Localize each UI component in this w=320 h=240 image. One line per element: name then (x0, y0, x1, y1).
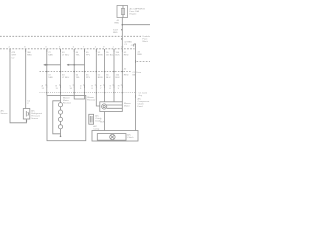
tick row y85 (45, 85, 135, 98)
dashed connector row C (40, 71, 132, 73)
svg-text:Clutch: Clutch (127, 136, 134, 139)
resistor chain circle 4 (58, 125, 62, 129)
motor brush lines (107, 105, 123, 108)
resistor chain circle 1 (58, 103, 62, 107)
dot stub B (73, 64, 75, 66)
sensor bottom dot (26, 120, 27, 121)
clutch coil circle (110, 134, 115, 139)
svg-text:BRN: BRN (98, 77, 103, 79)
compressor inner rect (97, 134, 126, 141)
wire fused feed below boundary (121, 49, 123, 102)
svg-text:Comp: Comp (93, 129, 100, 131)
junction dots row C (26, 24, 123, 137)
chain bottom dot (60, 136, 62, 138)
wire 2 left sensor signal (25, 49, 27, 109)
svg-text:Resistor: Resistor (87, 99, 95, 102)
wire fuse output vertical (121, 18, 123, 49)
dot stub A (46, 64, 48, 66)
svg-text:LT BLU: LT BLU (62, 77, 70, 79)
connector dots wire 122 (121, 29, 122, 30)
svg-text:TAN: TAN (48, 76, 53, 79)
wire 4 (60, 49, 62, 96)
wire branch to right edge (122, 24, 150, 26)
svg-text:GRY: GRY (12, 55, 17, 57)
arrow stub A (44, 64, 61, 66)
wire 5 (73, 49, 75, 96)
svg-text:Sensor: Sensor (31, 117, 38, 120)
svg-text:RED: RED (124, 55, 129, 57)
pressure sensor box (23, 109, 30, 120)
wire motor ground (104, 112, 106, 131)
resistor chain links (60, 107, 62, 137)
wire 7 blower feed (96, 49, 100, 106)
dashed boundary B (0, 48, 135, 50)
svg-text:RED: RED (124, 75, 129, 77)
dotted connector row D (40, 92, 137, 94)
motor armature (102, 104, 107, 109)
svg-text:BLK: BLK (100, 122, 105, 124)
splice dot on branch (122, 24, 124, 26)
bracket at wire 135.5 top (134, 44, 136, 63)
svg-text:RED: RED (27, 55, 32, 57)
compressor box (92, 131, 138, 142)
fuse F1 element (121, 9, 124, 15)
blower motor box (100, 102, 123, 112)
row D crossing marks (46, 92, 47, 93)
diode box (89, 114, 94, 124)
svg-text:BLK: BLK (116, 77, 121, 79)
svg-text:Block: Block (143, 41, 149, 43)
resistor chain circle 2 (58, 110, 62, 114)
svg-text:Motor: Motor (124, 105, 130, 108)
svg-text:DK BLU: DK BLU (106, 55, 114, 57)
wire right feed to compressor (135, 44, 137, 131)
svg-text:Engine: Engine (130, 14, 138, 16)
fuse F1 leads (122, 6, 124, 18)
dashed boundary B right step (137, 61, 151, 63)
svg-text:RED: RED (138, 54, 143, 56)
bypass loop (53, 101, 61, 134)
fuse block box F1 (117, 6, 128, 18)
resistor module box (47, 96, 86, 141)
svg-text:Resistor: Resistor (63, 102, 71, 105)
resistor chain circle 3 (58, 117, 62, 121)
svg-text:BRN: BRN (98, 55, 103, 57)
svg-text:RED: RED (115, 23, 120, 25)
svg-text:Feed: Feed (138, 106, 144, 108)
wire 6 (84, 49, 86, 96)
connector ticks at boundary B (10, 44, 136, 63)
module internal link (74, 96, 84, 100)
svg-text:BLK: BLK (116, 55, 121, 57)
svg-text:TAN: TAN (48, 54, 53, 57)
svg-text:RED: RED (113, 32, 118, 34)
sensor symbol (26, 111, 28, 117)
svg-text:BLU: BLU (106, 77, 111, 79)
svg-text:LT BLU: LT BLU (62, 55, 70, 57)
svg-text:Sensor: Sensor (1, 112, 8, 115)
wire 1 left pressure sensor feed (10, 49, 27, 123)
dashed boundary A (0, 35, 141, 37)
wire 8 motor feed (104, 49, 106, 102)
diode symbol (90, 116, 92, 123)
resistor chain link top (60, 96, 62, 103)
arrow stub B (67, 64, 85, 66)
wire 9 (113, 49, 115, 102)
wire 3 (46, 49, 48, 96)
arrowheads (43, 64, 69, 66)
